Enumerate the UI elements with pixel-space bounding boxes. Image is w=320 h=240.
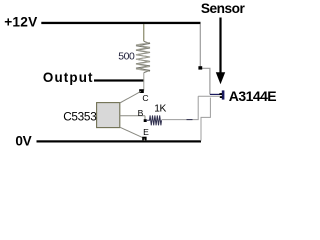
svg-text:1K: 1K	[154, 104, 166, 115]
svg-text:0V: 0V	[15, 134, 31, 149]
junction vcc corner dot	[198, 66, 202, 69]
resistor R1 500	[136, 24, 150, 91]
svg-text:C: C	[142, 93, 148, 103]
svg-text:+12V: +12V	[4, 14, 38, 29]
wire 0V rail	[37, 140, 202, 142]
sensor pointer arrow	[216, 18, 225, 85]
svg-text:Output: Output	[43, 70, 94, 85]
junction base-resistor dot	[144, 119, 147, 122]
svg-text:Sensor: Sensor	[201, 1, 246, 16]
wire sensor output pin	[198, 95, 220, 97]
svg-text:B: B	[138, 108, 144, 118]
wire 1K lead navy tint	[187, 119, 193, 121]
hall sensor U1 A3144E symbol	[210, 90, 225, 99]
junction collector node dot	[139, 89, 144, 93]
resistor R2 1K	[146, 115, 162, 125]
wire emitter to 0V rail	[143, 139, 145, 141]
svg-text:C5353: C5353	[63, 109, 97, 123]
wire sensor output down	[162, 96, 199, 119]
svg-text:500: 500	[118, 51, 135, 62]
svg-text:A3144E: A3144E	[229, 88, 277, 104]
wire output line	[94, 79, 144, 81]
wire +12V rail	[41, 22, 200, 24]
wire sensor gnd down	[201, 98, 210, 141]
junction emitter-rail dot	[142, 137, 146, 141]
transistor Q1 C5353 package	[97, 91, 145, 138]
svg-text:E: E	[143, 127, 149, 137]
wire +12V down to sensor vcc	[200, 24, 210, 94]
